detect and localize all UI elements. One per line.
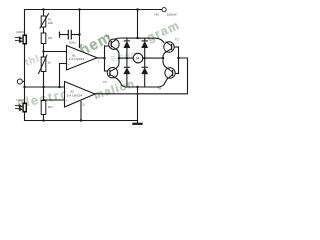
wire node to A2 noninverting	[25, 86, 65, 88]
wire T2 base stub	[172, 46, 179, 48]
svg-text:M: M	[136, 56, 139, 61]
wire diode D2 column	[144, 38, 146, 41]
wire R1 bottom to P2 top	[43, 44, 45, 58]
svg-text:4k7: 4k7	[48, 105, 53, 109]
node P2 bottom (43,86.5)	[42, 86, 44, 88]
wire R5 top to A2 inverting	[44, 99, 65, 101]
wire T1 base stub	[105, 45, 112, 47]
node A1 output split (104,57.5)	[103, 57, 105, 59]
wire A1 inverting input	[44, 51, 67, 53]
capacitor C1 100n	[60, 30, 72, 40]
wire A1 output split to bases	[104, 46, 106, 71]
svg-text:+9V: +9V	[154, 13, 159, 17]
terminal K1 left	[17, 79, 24, 84]
op-amp A2	[65, 82, 96, 108]
terminal +9V	[162, 8, 166, 12]
wire A2 supply to ground rail	[80, 102, 82, 121]
preset P1	[40, 13, 49, 28]
node A1 noninverting tie (59,86.5)	[58, 86, 60, 88]
wire ring top edge	[115, 38, 164, 43]
svg-text:1/4 LM324: 1/4 LM324	[69, 57, 85, 61]
resistor R3	[41, 33, 46, 44]
wire ring bottom edge	[117, 78, 168, 87]
svg-text:150mW: 150mW	[167, 13, 177, 17]
wire diode D3 column	[126, 58, 128, 67]
svg-text:1M: 1M	[48, 36, 53, 40]
wire left rail middle	[24, 45, 26, 103]
wire ring right column	[163, 52, 166, 67]
svg-text:1/4 LM324: 1/4 LM324	[67, 94, 83, 98]
svg-text:−: −	[68, 50, 70, 54]
wire meter left	[119, 57, 133, 59]
node left rail reference (24,86.5)	[23, 86, 25, 88]
wire meter right	[143, 57, 163, 59]
svg-text:LDR1: LDR1	[17, 30, 25, 34]
wire cap left lead	[60, 34, 69, 36]
svg-text:+: +	[66, 99, 68, 103]
wire left rail lower	[24, 113, 26, 121]
svg-text:T3: T3	[103, 80, 107, 84]
wire P1 to R1	[43, 27, 45, 33]
transistor T2	[164, 42, 174, 53]
wire bridge feed from top rail	[137, 10, 139, 39]
node right base split (178,57.5)	[177, 57, 179, 59]
svg-text:T4: T4	[158, 87, 162, 91]
wire bottom rail	[25, 120, 138, 122]
svg-text:+: +	[68, 63, 70, 67]
node R4 ground (43,120)	[42, 119, 44, 121]
node meter right column (162.5,57.6)	[162, 57, 164, 59]
wire A1 noninverting input	[60, 64, 67, 88]
wire T3 base stub	[105, 70, 110, 72]
svg-text:1k: 1k	[47, 61, 51, 65]
LDR R2 (LDR2)	[15, 103, 27, 113]
node meter left column (118.5,57.6)	[118, 57, 120, 59]
diode D4	[142, 67, 148, 74]
svg-text:10k: 10k	[48, 21, 53, 25]
node D2-D4 meter tap (144.2,57.6)	[144, 57, 146, 59]
svg-text:LDR2: LDR2	[17, 98, 25, 102]
node bridge top center (137,37.5)	[136, 37, 138, 39]
diode D3	[124, 67, 130, 74]
wire A1 output	[97, 57, 105, 59]
node R4-A2 inverting (43,99.5)	[42, 99, 44, 101]
watermark	[16, 18, 182, 111]
diode D2	[142, 41, 148, 48]
node A2 supply ground (80.5,120)	[80, 119, 82, 121]
wire left rail upper	[24, 10, 26, 35]
diode D1	[124, 41, 130, 48]
wire R5 bottom to rail	[43, 115, 45, 121]
node supply tap (79,9)	[78, 8, 80, 10]
op-amp A1	[67, 46, 98, 71]
wire right base rail	[178, 47, 180, 74]
wire A2 output to right bases	[95, 58, 188, 94]
svg-text:T2: T2	[175, 38, 179, 42]
transistor T3	[107, 68, 117, 79]
svg-text:100n: 100n	[69, 40, 76, 44]
node bridge feed (137,9)	[136, 8, 138, 10]
wire diode D4 column	[144, 58, 146, 67]
transistor T1	[109, 39, 119, 50]
potentiometer P2	[38, 55, 47, 74]
node R3-A1 inverting (43,51)	[42, 50, 44, 52]
wire A1 supply from top rail	[79, 10, 81, 48]
node P1 top (43,9)	[42, 8, 44, 10]
wire top rail	[25, 9, 162, 11]
wire bridge bottom to ground	[137, 87, 139, 121]
node C1-supply junction (79,34)	[78, 33, 80, 35]
wire diode D1 column	[126, 38, 128, 41]
meter M1	[133, 53, 143, 63]
node D1-D3 meter tap (126.4,57.6)	[126, 57, 128, 59]
wire cap right lead to supply line	[72, 34, 80, 36]
transistor T4	[165, 67, 175, 79]
wire P2 bottom to R5 top	[43, 72, 45, 101]
wire ring left column	[117, 50, 119, 68]
svg-text:−: −	[66, 86, 68, 90]
ground	[137, 121, 139, 124]
node bridge bottom center (137,86.5)	[136, 86, 138, 88]
svg-text:T1: T1	[106, 34, 110, 38]
wire column x43 top	[43, 10, 45, 17]
wire T4 base stub	[173, 73, 179, 75]
LDR R1 (LDR1)	[15, 35, 27, 45]
resistor R4	[41, 101, 46, 115]
